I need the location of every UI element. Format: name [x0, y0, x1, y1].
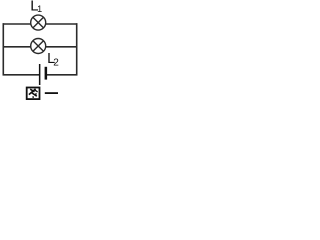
- background: [0, 0, 79, 101]
- wire: middle-left horizontal segment to lamp L2: [3, 46, 31, 48]
- wire: left vertical bus: [2, 23, 4, 75]
- wire: bottom-right horizontal segment from battery: [46, 74, 77, 76]
- battery cell: short thick (negative) plate: [45, 67, 48, 80]
- wire: bottom-left horizontal segment to battery: [3, 74, 40, 76]
- wire: top-left horizontal segment to lamp L1: [3, 23, 31, 25]
- wire: top-right horizontal segment from lamp L1: [46, 23, 77, 25]
- svg-text:2: 2: [53, 58, 59, 69]
- wire: right vertical bus: [76, 23, 78, 75]
- wire: middle-right horizontal segment from lamp L2: [46, 46, 77, 48]
- caption character 图 (drawn as strokes): [27, 88, 40, 100]
- caption character 一: [45, 92, 58, 94]
- battery cell: long (positive) plate: [39, 64, 41, 85]
- lamp L1 (circle with X): [31, 15, 46, 30]
- svg-text:1: 1: [37, 4, 42, 14]
- lamp L2 (circle with X): [31, 39, 46, 54]
